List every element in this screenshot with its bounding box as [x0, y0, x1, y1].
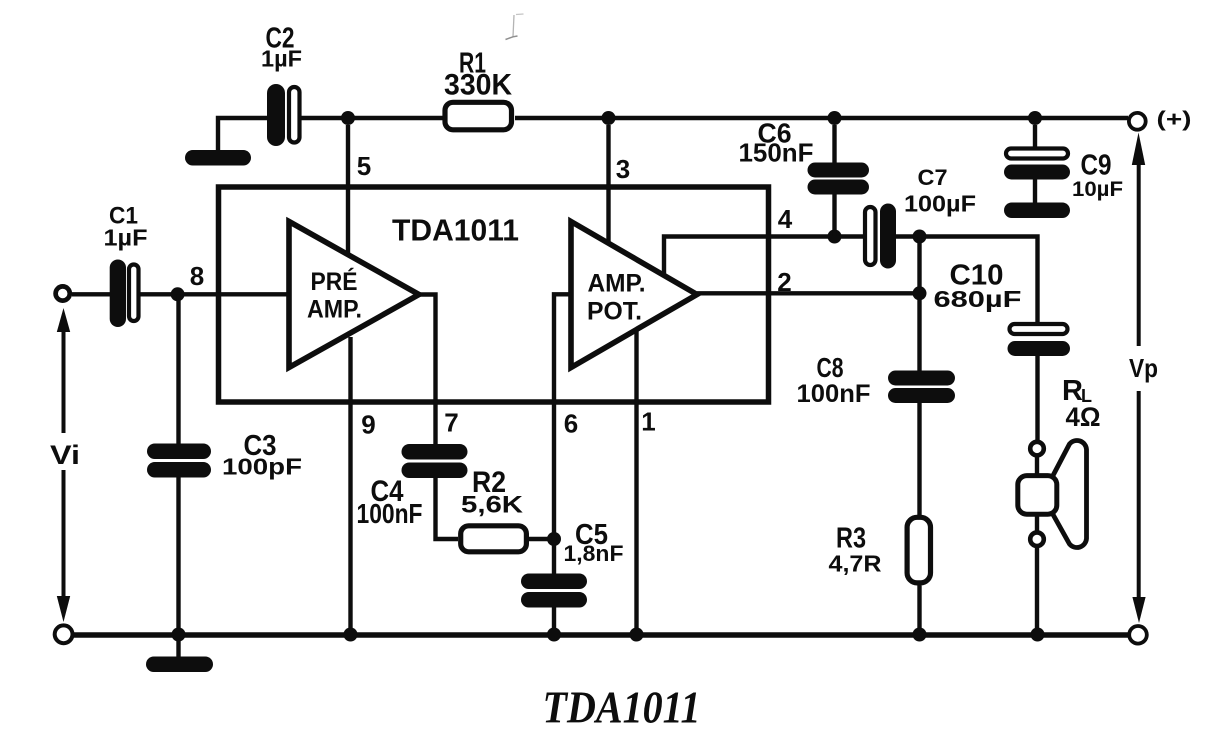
wire C4 to R2 [436, 478, 459, 539]
terminal (+) [1129, 108, 1192, 131]
pin 6 label [564, 409, 578, 439]
svg-text:AMP.: AMP. [588, 270, 646, 298]
wire R2 to pin6 line [529, 537, 554, 541]
node junction top rail C9 [1028, 111, 1042, 125]
capacitor C5 [521, 574, 587, 608]
svg-text:POT.: POT. [587, 298, 642, 326]
node junction rail pin9 [344, 628, 358, 642]
node junction top rail C6 [828, 111, 842, 125]
node junction rail R3 [913, 628, 927, 642]
pin 3 label [616, 154, 630, 184]
label C9 value [1072, 150, 1123, 202]
label C5 value [564, 519, 624, 566]
svg-text:100µF: 100µF [904, 191, 976, 217]
wire pin5 [346, 125, 350, 256]
svg-text:330K: 330K [444, 69, 512, 102]
svg-text:1: 1 [641, 407, 655, 437]
terminal bottom left [55, 625, 73, 643]
node junction C7 out [913, 230, 927, 244]
node junction pin2 [913, 286, 927, 300]
svg-text:AMP.: AMP. [307, 296, 362, 324]
wire C6 bottom [832, 195, 836, 237]
capacitor C4 [402, 444, 468, 478]
capacitor C1 [110, 260, 139, 328]
pin 8 label [190, 261, 204, 291]
svg-text:4: 4 [778, 204, 793, 234]
label R1 value [444, 48, 512, 102]
label R3 value [829, 523, 882, 577]
svg-text:Vp: Vp [1129, 353, 1158, 383]
ground [185, 150, 251, 166]
label C6 value [739, 118, 814, 168]
svg-text:100nF: 100nF [797, 380, 871, 408]
node junction rail pin1 [630, 628, 644, 642]
wire C8 to R3 [917, 403, 921, 515]
node Vp arrow [1129, 133, 1158, 624]
wire pin3 [606, 125, 610, 243]
wire input to C1 [72, 292, 110, 296]
label C8 value [797, 352, 871, 408]
wire pin2 node down to C8 [917, 237, 921, 371]
wire C3 to rail [176, 478, 180, 636]
wire R1 to (+) [515, 116, 1128, 120]
svg-text:5,6K: 5,6K [461, 492, 524, 519]
svg-text:(+): (+) [1157, 108, 1192, 131]
node junction pin4 C6 [828, 230, 842, 244]
pin 7 label [444, 408, 458, 438]
pin 9 label [361, 410, 375, 440]
svg-text:TDA1011: TDA1011 [543, 683, 701, 733]
capacitor C3 [147, 444, 211, 478]
node junction rail speaker [1031, 628, 1045, 642]
wire pin1 [634, 331, 638, 635]
stray pen mark [513, 15, 514, 37]
svg-text:9: 9 [361, 410, 375, 440]
svg-text:3: 3 [616, 154, 630, 184]
node junction rail C3 [172, 628, 186, 642]
svg-text:7: 7 [444, 408, 458, 438]
wire C10 to speaker [1035, 356, 1039, 440]
node junction R2 C5 [547, 532, 561, 546]
wire bottom rail [71, 632, 1130, 637]
resistor R3 [907, 517, 930, 583]
label C3 value [222, 430, 302, 480]
wire C1 to pre-amp input pin8 [140, 292, 289, 296]
wire top rail left segment [218, 118, 267, 152]
label C4 value [357, 475, 423, 529]
speaker RL [1018, 440, 1087, 635]
terminal input Vi [56, 286, 70, 300]
pin 5 label [357, 151, 371, 181]
wire C9 top [1033, 125, 1037, 147]
svg-text:100nF: 100nF [357, 498, 423, 529]
label C7 value [904, 165, 976, 217]
svg-text:1,8nF: 1,8nF [564, 541, 624, 566]
svg-text:6: 6 [564, 409, 578, 439]
svg-text:Vi: Vi [50, 440, 80, 470]
wire C6 top [832, 125, 836, 163]
label C1 value [104, 203, 148, 251]
svg-text:4Ω: 4Ω [1066, 402, 1101, 432]
wire pin7 from pre-amp output down [419, 295, 436, 445]
capacitor C7 [865, 204, 896, 269]
title TDA1011 [543, 683, 701, 733]
capacitor C9 [1004, 149, 1070, 180]
wire pin6 [554, 294, 571, 573]
resistor R1 [445, 102, 512, 130]
pin 2 label [777, 267, 791, 297]
wire R3 to rail [917, 586, 921, 636]
svg-text:TDA1011: TDA1011 [392, 213, 519, 248]
svg-text:8: 8 [190, 261, 204, 291]
pin 1 label [641, 407, 655, 437]
svg-text:1µF: 1µF [261, 46, 302, 72]
wire C9 bottom [1033, 180, 1037, 203]
label TDA1011 [392, 213, 519, 248]
svg-text:C8: C8 [817, 352, 844, 383]
op-amp U1 IC box TDA1011 [219, 187, 769, 402]
wire pin4 feedback [664, 237, 863, 274]
op-amp power amplifier triangle [571, 222, 697, 368]
node junction top rail pin5 [341, 111, 355, 125]
node junction rail C5 [547, 628, 561, 642]
capacitor C10 [1008, 324, 1071, 356]
resistor R2 [461, 526, 527, 552]
node Vi arrow [50, 308, 80, 622]
svg-text:PRÉ: PRÉ [311, 267, 358, 296]
svg-text:100pF: 100pF [222, 454, 302, 480]
label RL value [1062, 375, 1101, 432]
label C2 value [261, 23, 302, 72]
svg-text:2: 2 [777, 267, 791, 297]
svg-text:5: 5 [357, 151, 371, 181]
wire pin9 [348, 337, 352, 635]
capacitor C2 [267, 84, 300, 146]
op-amp pre-amplifier triangle [289, 222, 419, 368]
capacitor C6 [808, 163, 870, 195]
terminal bottom right [1129, 626, 1147, 644]
ground C3 [146, 657, 213, 673]
ground C9 [1004, 203, 1070, 219]
wire C3 branch [176, 294, 180, 443]
svg-text:680µF: 680µF [934, 286, 1022, 312]
wire C2 to R1 [301, 116, 443, 120]
wire C5 to rail [552, 608, 556, 636]
svg-text:C7: C7 [918, 165, 948, 190]
wire pin2 output [697, 291, 920, 295]
node junction top rail pin3 [602, 111, 616, 125]
capacitor C8 [888, 371, 955, 404]
pin 4 label [778, 204, 793, 234]
svg-text:10µF: 10µF [1072, 178, 1123, 201]
wire ground stub [176, 635, 180, 658]
wire C7 to C10 [896, 237, 1038, 323]
label C10 value [934, 260, 1022, 313]
svg-text:150nF: 150nF [739, 138, 814, 168]
svg-text:1µF: 1µF [104, 225, 148, 251]
label R2 value [461, 466, 524, 519]
svg-text:4,7R: 4,7R [829, 551, 882, 577]
svg-text:C9: C9 [1081, 150, 1112, 182]
node junction pin8 [171, 287, 185, 301]
